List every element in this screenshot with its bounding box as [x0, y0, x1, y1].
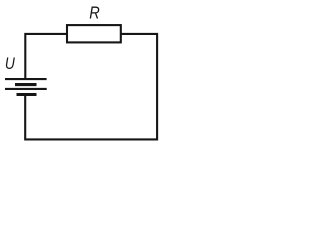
battery U1 plate: short thick (bottom, -) [17, 93, 37, 96]
wire loop: left riser, top wire, right riser, bottom wire [25, 34, 157, 139]
battery U1 plate: short thick (-) [15, 83, 37, 86]
battery U1 plate: long thin (top, +) [5, 78, 47, 80]
svg-text:U: U [5, 55, 15, 73]
svg-text:R: R [89, 3, 100, 23]
battery U1 plate: long thin (+) [5, 88, 47, 90]
resistor R1 (box) [67, 25, 121, 42]
